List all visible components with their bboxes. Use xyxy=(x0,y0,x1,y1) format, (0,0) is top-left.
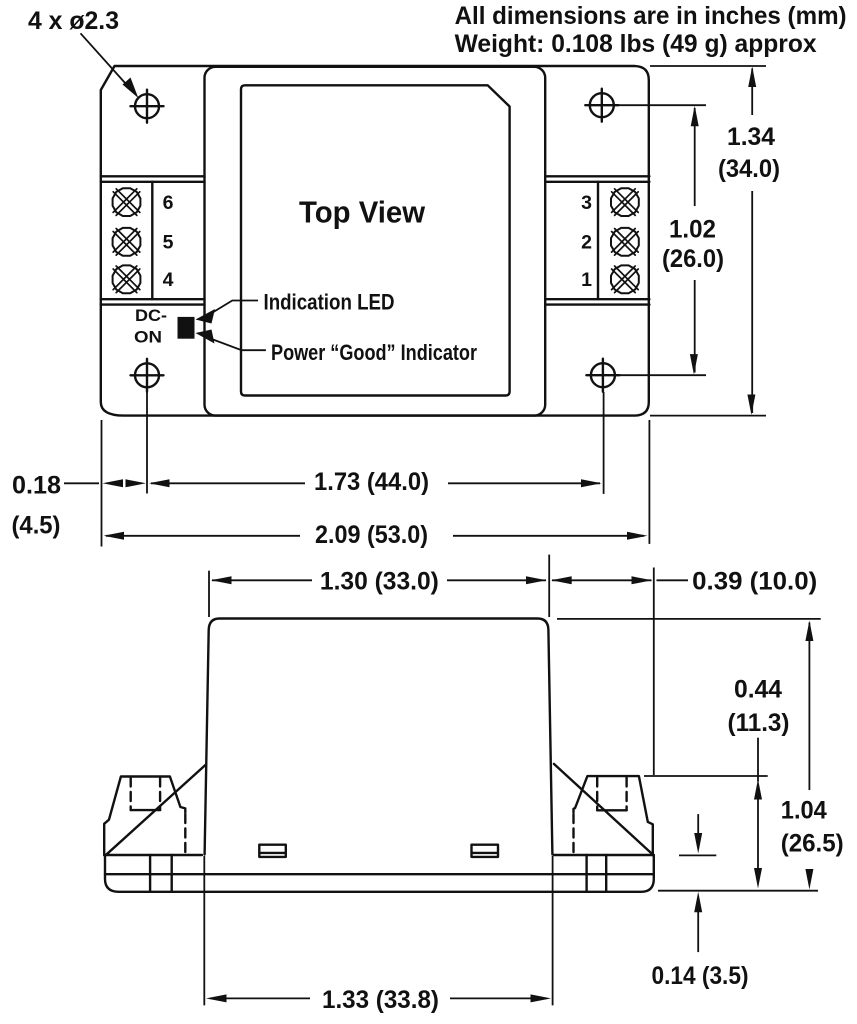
screw terminal 3 xyxy=(611,188,639,216)
svg-text:Indication LED: Indication LED xyxy=(264,290,395,315)
left flange hidden screw slot xyxy=(131,809,160,811)
arrowhead 1.33 left xyxy=(206,994,227,1002)
dim arrow shaft 0.44 between leaders xyxy=(757,796,759,872)
dim line 1.73 xyxy=(151,482,600,484)
svg-text:1.73 (44.0): 1.73 (44.0) xyxy=(314,468,429,496)
svg-text:DC-: DC- xyxy=(135,306,167,325)
top edge leader right (1.34) xyxy=(650,65,766,67)
svg-text:1.04: 1.04 xyxy=(781,797,827,825)
svg-text:(34.0): (34.0) xyxy=(718,155,780,183)
svg-text:All dimensions are in inches (: All dimensions are in inches (mm) xyxy=(455,2,847,30)
leader line for hole callout 4x2.3 xyxy=(81,33,131,88)
svg-text:(4.5): (4.5) xyxy=(12,512,61,540)
arrowhead 1.73 right xyxy=(581,479,602,487)
mounting hole top-right xyxy=(590,93,614,117)
extension line module left edge down xyxy=(101,420,103,547)
inner top face rectangle with chamfer xyxy=(241,85,510,395)
arrowhead 1.02 top xyxy=(691,106,699,127)
left flange gusset diagonal xyxy=(106,765,206,855)
svg-text:6: 6 xyxy=(163,192,174,214)
leader power good indicator xyxy=(206,337,266,350)
dim line 1.34 vertical xyxy=(751,69,753,414)
svg-text:3: 3 xyxy=(581,192,592,214)
extension line hole bottom-right down xyxy=(603,392,605,494)
svg-text:4: 4 xyxy=(163,269,174,291)
right flange gusset diagonal xyxy=(554,764,651,853)
arrowhead 2.09 left xyxy=(104,532,125,540)
base bottom leader right xyxy=(658,890,818,892)
lid (center raised section, top view) xyxy=(205,67,546,416)
base plate mid line xyxy=(105,873,654,875)
screw terminal 5 xyxy=(113,228,141,256)
extension line body right down (1.33) xyxy=(552,856,554,1005)
flange top leader right (0.44) xyxy=(644,775,768,777)
screw terminal 4 xyxy=(113,265,141,293)
svg-text:2.09 (53.0): 2.09 (53.0) xyxy=(315,521,428,549)
extension line base right edge up (0.39) xyxy=(653,568,655,776)
arrowhead 1.04 bottom xyxy=(805,869,813,890)
base top short leader right (0.14) xyxy=(679,854,716,856)
svg-text:Top View: Top View xyxy=(299,195,426,230)
right terminal block top double line xyxy=(545,176,649,182)
arrowhead 0.39 left xyxy=(551,576,572,584)
arrowhead 1.34 bottom xyxy=(747,395,755,416)
indication LED square xyxy=(178,317,195,339)
dim shaft 0.14 upper xyxy=(697,814,699,838)
arrowhead 0.14 upper down xyxy=(694,833,702,854)
arrowhead 0.18 right xyxy=(126,479,147,487)
svg-text:4 x ø2.3: 4 x ø2.3 xyxy=(28,7,119,35)
left terminal block top double line xyxy=(101,176,205,182)
svg-text:Power “Good” Indicator: Power “Good” Indicator xyxy=(271,340,477,365)
svg-text:(11.3): (11.3) xyxy=(728,709,790,737)
dim line 0.39 xyxy=(552,579,688,581)
extension line module right edge down xyxy=(648,420,650,544)
extension line body left (1.30) xyxy=(208,571,210,617)
arrowhead 1.30 left xyxy=(211,576,232,584)
svg-text:1.30 (33.0): 1.30 (33.0) xyxy=(320,568,439,596)
arrowhead 1.30 right xyxy=(526,576,547,584)
right slot on body bottom xyxy=(472,845,499,857)
arrowhead 1.04 top xyxy=(805,621,813,642)
mounting hole bottom-right xyxy=(591,363,615,387)
screw terminal 2 xyxy=(611,228,639,256)
arrowhead indication LED xyxy=(196,309,216,324)
arrowhead 0.44 up xyxy=(754,779,762,800)
screw terminal 1 xyxy=(611,265,639,293)
leader from hole bottom-right (1.02) xyxy=(615,374,706,376)
mounting hole bottom-left xyxy=(135,363,159,387)
dim line 1.04 vertical xyxy=(808,623,810,791)
body outline (side view) xyxy=(205,619,553,855)
svg-text:2: 2 xyxy=(581,232,592,254)
screw terminal 6 xyxy=(113,188,141,216)
left terminal block divider xyxy=(151,182,153,299)
svg-text:ON: ON xyxy=(134,328,162,347)
dim line 1.33 xyxy=(210,997,547,999)
arrowhead 2.09 right xyxy=(627,532,648,540)
base pin lines below left flange xyxy=(150,855,172,892)
arrowhead 1.34 top xyxy=(748,67,756,88)
right terminal block bottom double line xyxy=(545,299,649,304)
base pin lines below right flange xyxy=(587,855,607,892)
svg-text:1.02: 1.02 xyxy=(669,216,716,244)
extension line hole bottom-left down xyxy=(146,392,148,494)
mounting hole top-left xyxy=(135,94,159,118)
base plate (side view) xyxy=(105,855,654,892)
extension line body right (1.30/0.39) xyxy=(548,555,550,617)
arrowhead 1.02 bottom xyxy=(690,354,698,375)
bottom edge leader right (1.34) xyxy=(650,415,766,417)
right terminal block divider xyxy=(597,182,599,299)
arrowhead 1.73 left xyxy=(149,479,170,487)
leader indication LED xyxy=(206,301,258,317)
left terminal block bottom double line xyxy=(101,299,205,304)
svg-text:0.18: 0.18 xyxy=(12,472,61,500)
arrowhead 0.18 left xyxy=(103,479,124,487)
dim line 0.44 stub from text xyxy=(757,738,759,782)
svg-text:0.44: 0.44 xyxy=(734,676,782,704)
svg-text:Weight: 0.108 lbs (49 g) appro: Weight: 0.108 lbs (49 g) approx xyxy=(455,30,817,58)
dim line 1.02 vertical xyxy=(694,108,696,373)
base plate top line xyxy=(104,854,654,856)
arrowhead hole callout xyxy=(123,78,139,99)
svg-text:1.34: 1.34 xyxy=(727,123,775,151)
dim line 2.09 xyxy=(106,535,644,537)
dim shaft 0.14 lower xyxy=(697,908,699,952)
right mounting flange outline (side view) xyxy=(574,776,653,855)
svg-text:5: 5 xyxy=(163,232,174,254)
extension line body left down (1.33) xyxy=(203,856,205,1005)
arrowhead 1.33 right xyxy=(531,994,552,1002)
svg-text:1.33 (33.8): 1.33 (33.8) xyxy=(322,986,439,1014)
svg-text:0.39 (10.0): 0.39 (10.0) xyxy=(692,568,817,596)
svg-text:(26.0): (26.0) xyxy=(662,245,724,273)
left mounting flange outline (side view) xyxy=(104,777,185,856)
dim line 1.30 xyxy=(212,579,546,581)
left slot on body bottom xyxy=(259,845,286,857)
arrowhead 0.39 right xyxy=(632,576,653,584)
module body outline (top view) xyxy=(101,66,649,416)
svg-text:1: 1 xyxy=(581,269,592,291)
svg-text:0.14 (3.5): 0.14 (3.5) xyxy=(652,962,749,990)
right flange hidden screw slot xyxy=(597,809,626,811)
arrowhead 0.44 down xyxy=(754,868,762,889)
arrowhead 0.14 lower up xyxy=(694,892,702,913)
dim line 0.18 leader from text xyxy=(64,482,99,484)
body top leader right (1.04) xyxy=(557,618,821,620)
svg-text:(26.5): (26.5) xyxy=(781,830,844,858)
arrowhead power good xyxy=(196,330,215,344)
leader from hole top-right (1.02) xyxy=(614,104,706,106)
